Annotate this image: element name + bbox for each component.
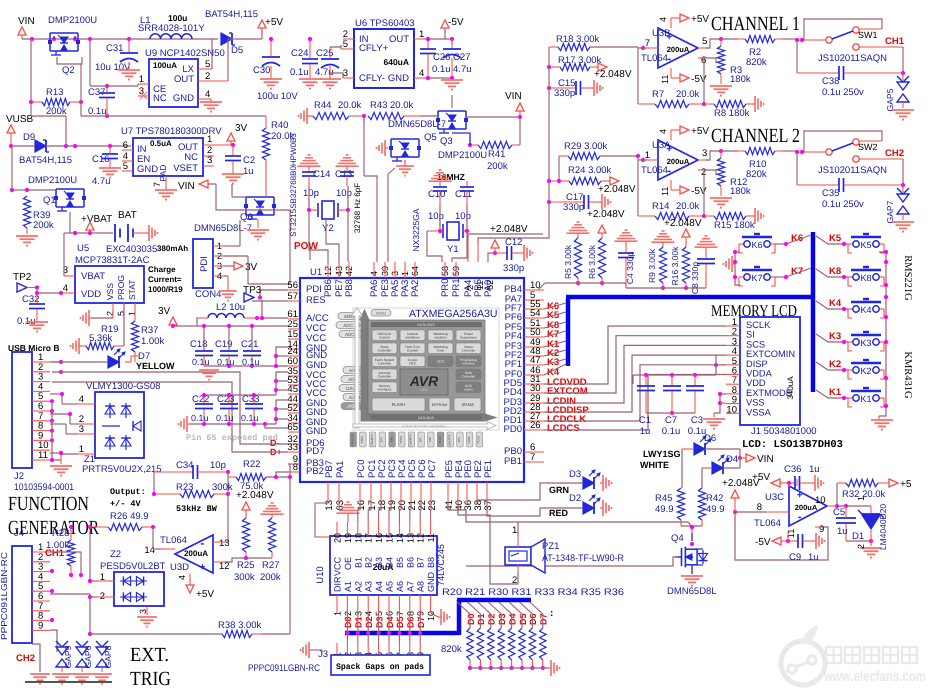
svg-text:LWY1SG: LWY1SG bbox=[643, 449, 681, 459]
svg-text:1: 1 bbox=[419, 29, 424, 40]
pin 3 bbox=[330, 68, 354, 79]
U1 peripheral pills bbox=[350, 432, 483, 447]
label ATXMEGA256A3U bbox=[409, 308, 498, 320]
svg-text:VBAT: VBAT bbox=[81, 271, 105, 282]
svg-text:J2: J2 bbox=[14, 471, 24, 482]
svg-text:RMS221G: RMS221G bbox=[902, 255, 913, 301]
svg-text:GAP7: GAP7 bbox=[885, 200, 895, 223]
svg-text:PR1: PR1 bbox=[451, 279, 462, 297]
inductor L1 bbox=[138, 13, 205, 39]
pin 2 bbox=[198, 39, 236, 82]
wire gnd chain top bbox=[252, 347, 288, 368]
svg-text:SCS: SCS bbox=[746, 339, 765, 349]
svg-text:LCD: LSO13B7DH03: LCD: LSO13B7DH03 bbox=[742, 439, 843, 451]
svg-text:-5V: -5V bbox=[448, 17, 464, 28]
svg-text:NX3225GA: NX3225GA bbox=[411, 208, 421, 251]
net wire left rail bbox=[10, 146, 29, 192]
svg-text:A7: A7 bbox=[405, 581, 415, 592]
capacitor C30 bbox=[253, 37, 298, 102]
svg-text:PROG: PROG bbox=[116, 275, 126, 300]
3V arrow con4 bbox=[224, 262, 258, 273]
op-amp U3A TL064 bbox=[641, 140, 698, 180]
resistor R27 bbox=[224, 518, 281, 583]
wire R38 row bbox=[0, 0, 1, 1]
svg-text:26: 26 bbox=[530, 420, 541, 431]
resistor R44 bbox=[299, 100, 365, 124]
svg-text:37: 37 bbox=[483, 500, 494, 511]
svg-text:200uA: 200uA bbox=[184, 549, 208, 558]
svg-text:R25: R25 bbox=[237, 560, 254, 571]
svg-text:200uA: 200uA bbox=[667, 157, 690, 166]
U1 AVR CPU box bbox=[400, 369, 448, 395]
svg-text:Pin 65 exposed pad: Pin 65 exposed pad bbox=[186, 433, 278, 443]
crystal Y1 bbox=[427, 205, 469, 255]
svg-text:RED: RED bbox=[549, 508, 569, 518]
testpoint TP2 bbox=[13, 272, 61, 295]
wire vcc rail mid bbox=[202, 372, 288, 397]
U1 internal pin pills bbox=[336, 313, 367, 410]
svg-text:+: + bbox=[199, 562, 205, 573]
capacitor C36 bbox=[0, 0, 1, 1]
svg-text:K5: K5 bbox=[860, 240, 871, 250]
svg-text:D6: D6 bbox=[406, 616, 416, 628]
svg-text:YELLOW: YELLOW bbox=[136, 361, 175, 371]
svg-text:J3: J3 bbox=[318, 649, 328, 660]
U10 vcc pyramid bbox=[337, 502, 360, 522]
bridge Z1 PRTR5V0U2X bbox=[82, 381, 162, 475]
button K3 bbox=[816, 331, 884, 351]
svg-text:A3: A3 bbox=[364, 581, 374, 592]
svg-text:TL064: TL064 bbox=[641, 165, 668, 176]
svg-text:5: 5 bbox=[343, 39, 348, 50]
resistor R41 bbox=[452, 117, 520, 172]
capacitor C16 bbox=[92, 146, 121, 187]
svg-text:C3: C3 bbox=[691, 415, 703, 426]
led D2 red bbox=[487, 493, 612, 518]
Z2 wire2 bbox=[50, 594, 98, 599]
svg-text:EVENT ROUTING NETWORK: EVENT ROUTING NETWORK bbox=[402, 424, 446, 428]
svg-text:Counter: Counter bbox=[407, 348, 419, 352]
svg-text:K1: K1 bbox=[860, 394, 871, 404]
svg-text:+2.048V: +2.048V bbox=[598, 184, 636, 195]
svg-text:3V: 3V bbox=[245, 262, 258, 273]
capacitor C17 bbox=[468, 183, 625, 244]
svg-text:D2: D2 bbox=[487, 613, 497, 625]
pin 4 bbox=[59, 283, 75, 295]
U1 block diagram frame bbox=[353, 308, 499, 430]
svg-text:K2: K2 bbox=[860, 366, 871, 376]
svg-text:0.1u: 0.1u bbox=[432, 64, 451, 75]
label DMN65D8L-7 mid bbox=[194, 223, 252, 234]
svg-text:A1: A1 bbox=[343, 581, 353, 592]
resistor R2 bbox=[721, 35, 797, 68]
svg-text:R24 3.00k: R24 3.00k bbox=[568, 165, 612, 176]
svg-text:9: 9 bbox=[38, 620, 43, 631]
U1 left pins bbox=[287, 280, 328, 477]
svg-text:FLASH: FLASH bbox=[392, 402, 406, 407]
wires K pins to bus bbox=[544, 303, 566, 375]
op-amp U3C TL064 bbox=[754, 486, 827, 529]
J4 net CH1 bbox=[45, 548, 81, 575]
svg-text:C7: C7 bbox=[665, 415, 677, 426]
bus D stub labels bbox=[343, 613, 426, 643]
K67 left common bbox=[724, 250, 741, 285]
svg-text:TWI: TWI bbox=[389, 437, 393, 443]
svg-text:TWIC: TWIC bbox=[467, 435, 471, 443]
svg-text:DATA BUS: DATA BUS bbox=[418, 416, 435, 420]
J3 flag bbox=[301, 642, 323, 658]
svg-text:SPI: SPI bbox=[457, 437, 461, 442]
svg-text:200k: 200k bbox=[487, 161, 508, 172]
net +VBAT bbox=[81, 214, 112, 233]
svg-text:C5: C5 bbox=[833, 507, 845, 518]
connector J4 bbox=[0, 528, 32, 643]
capacitor C35 bbox=[797, 152, 905, 210]
svg-text::: : bbox=[550, 608, 553, 619]
svg-text:NC: NC bbox=[184, 152, 198, 163]
wire PZ1 net1 bbox=[448, 503, 694, 529]
XOSC box bbox=[371, 310, 391, 317]
svg-text:K8: K8 bbox=[860, 273, 871, 283]
connector J3 box bbox=[248, 649, 430, 675]
resistor R45 body bbox=[655, 488, 685, 526]
svg-text:3V: 3V bbox=[235, 123, 248, 134]
svg-text:9: 9 bbox=[819, 524, 824, 535]
svg-text:+: + bbox=[797, 490, 803, 501]
IC U1 box bbox=[300, 267, 524, 482]
text CHANNEL 2 bbox=[711, 125, 800, 147]
wire usb col bbox=[0, 0, 1, 1]
svg-text:1: 1 bbox=[856, 496, 866, 501]
op-amp U3B TL064 bbox=[641, 28, 698, 68]
button K1 bbox=[816, 387, 884, 407]
svg-text:Y1: Y1 bbox=[447, 244, 459, 255]
svg-text:640uA: 640uA bbox=[383, 57, 409, 67]
transistor Q3 DMP2100U bbox=[420, 111, 487, 161]
wire Y1 to U1 bbox=[427, 231, 467, 262]
svg-text:R20 R21 R30 R31 R33 R34 R35 R3: R20 R21 R30 R31 R33 R34 R35 R36 bbox=[442, 587, 624, 598]
pin 1 bbox=[138, 74, 149, 85]
svg-text:10u 10V: 10u 10V bbox=[95, 62, 131, 73]
U3C feedback loop bbox=[735, 512, 828, 560]
svg-text:4: 4 bbox=[177, 575, 187, 580]
diode D9 BAT54H,115 bbox=[19, 132, 72, 166]
svg-text:CFLY+: CFLY+ bbox=[359, 43, 389, 54]
svg-text:300k: 300k bbox=[212, 482, 233, 493]
pin 4 +5V bbox=[658, 14, 709, 28]
pin 3 bbox=[63, 233, 75, 276]
svg-text:K8: K8 bbox=[829, 266, 841, 277]
button K5 bbox=[816, 233, 884, 253]
svg-text:1u: 1u bbox=[243, 166, 254, 177]
svg-text:PZ1: PZ1 bbox=[542, 541, 559, 552]
svg-text:DIR: DIR bbox=[333, 576, 343, 592]
svg-text:LCDCS: LCDCS bbox=[547, 423, 580, 434]
svg-text:4: 4 bbox=[63, 283, 68, 294]
svg-text:TCE0: TCE0 bbox=[399, 436, 403, 444]
svg-text:WHITE: WHITE bbox=[640, 460, 669, 470]
J4 gnd left bbox=[30, 644, 50, 684]
svg-text:SW2: SW2 bbox=[858, 142, 878, 152]
svg-text:Supervision: Supervision bbox=[460, 335, 477, 339]
bus D junctions bbox=[345, 631, 422, 635]
svg-text:49.9: 49.9 bbox=[706, 504, 725, 515]
svg-text:PPPC091LGBN-RC: PPPC091LGBN-RC bbox=[248, 663, 320, 674]
svg-text:A8: A8 bbox=[416, 581, 426, 592]
switch SW1 JS102011SAQN bbox=[795, 19, 905, 64]
connector J2 pins bbox=[32, 352, 50, 461]
wire J2 vbus bbox=[52, 361, 61, 363]
resistor R9 bbox=[647, 231, 675, 290]
pin out bbox=[698, 36, 723, 48]
svg-text:C27: C27 bbox=[453, 52, 470, 63]
svg-text:CH2: CH2 bbox=[16, 653, 35, 664]
wire avcc bbox=[260, 300, 264, 320]
svg-text:6: 6 bbox=[123, 140, 128, 151]
svg-text:D1: D1 bbox=[354, 616, 364, 628]
svg-text:DMP2100U: DMP2100U bbox=[48, 15, 97, 26]
svg-text:DMP2100U: DMP2100U bbox=[28, 175, 77, 186]
svg-text:65: 65 bbox=[287, 422, 298, 433]
connector J1 pins bbox=[726, 317, 795, 417]
IC U6 TPS60403 bbox=[354, 18, 415, 88]
svg-text:8: 8 bbox=[293, 462, 298, 473]
svg-text:Controller: Controller bbox=[378, 374, 393, 378]
capacitor C5 bbox=[833, 506, 873, 543]
svg-text:4: 4 bbox=[419, 68, 424, 79]
svg-text:C1: C1 bbox=[639, 415, 651, 426]
wire USB D- bbox=[52, 372, 288, 444]
svg-text:330p: 330p bbox=[563, 202, 584, 213]
capacitor C25 bbox=[315, 45, 341, 89]
bottom shield bar bbox=[25, 681, 112, 683]
resistor R17 bbox=[547, 55, 632, 80]
svg-text:EXTCOMIN: EXTCOMIN bbox=[746, 349, 795, 359]
svg-text:C16: C16 bbox=[92, 154, 109, 165]
svg-text:340uA: 340uA bbox=[786, 376, 795, 400]
capacitor C8 bbox=[690, 236, 718, 294]
wire Y2 to U1 bbox=[309, 210, 348, 262]
svg-text:CHANNEL 2: CHANNEL 2 bbox=[711, 125, 800, 147]
svg-text:OE: OE bbox=[343, 557, 353, 570]
svg-text:Charge: Charge bbox=[148, 265, 176, 274]
svg-text:0.1u: 0.1u bbox=[192, 357, 210, 367]
wire VUSB rail bbox=[9, 144, 131, 148]
svg-text:100uA: 100uA bbox=[153, 61, 177, 70]
svg-text:R44: R44 bbox=[314, 100, 331, 111]
svg-text:1: 1 bbox=[79, 444, 84, 455]
svg-text:Z2: Z2 bbox=[110, 549, 121, 560]
spark gap GAP6 bbox=[72, 641, 93, 684]
svg-text:D9: D9 bbox=[23, 132, 35, 143]
svg-text:KMR431G: KMR431G bbox=[902, 351, 913, 399]
svg-text:D4: D4 bbox=[507, 613, 517, 625]
power +5V bbox=[258, 17, 283, 39]
svg-text:VSS: VSS bbox=[105, 283, 115, 300]
svg-text:300k: 300k bbox=[234, 572, 255, 583]
wire vdd rail bbox=[633, 373, 716, 384]
svg-text:R7: R7 bbox=[652, 89, 664, 100]
speaker PZ1 bbox=[505, 525, 624, 586]
resistor R8 bbox=[704, 58, 764, 119]
svg-text:200uA: 200uA bbox=[667, 45, 690, 54]
net VIN arrow bbox=[178, 180, 216, 192]
pin 1 3V out bbox=[203, 123, 248, 147]
svg-text:OUT: OUT bbox=[389, 34, 409, 45]
svg-text:0.5uA: 0.5uA bbox=[150, 139, 172, 148]
text EXT TRIG bbox=[130, 644, 171, 690]
U1 top pin wires bbox=[364, 116, 495, 262]
svg-text:+5V: +5V bbox=[691, 14, 709, 25]
svg-text:16: 16 bbox=[356, 500, 367, 511]
svg-text:11: 11 bbox=[660, 187, 670, 196]
U1 data bus bottom bbox=[371, 415, 482, 420]
text GENERATOR bbox=[8, 517, 100, 539]
button K6 bbox=[739, 233, 811, 253]
svg-text:PA6: PA6 bbox=[369, 280, 380, 297]
svg-text:1: 1 bbox=[512, 525, 517, 536]
bus D horizontal high bbox=[457, 598, 531, 603]
pin 4 bbox=[414, 68, 452, 79]
svg-text:EXT.: EXT. bbox=[130, 644, 169, 666]
svg-text:C25: C25 bbox=[316, 48, 333, 59]
U1 right pins bbox=[504, 280, 590, 467]
svg-text:R28: R28 bbox=[52, 528, 69, 539]
svg-text:PD0: PD0 bbox=[504, 424, 522, 435]
svg-text:matrix: matrix bbox=[464, 387, 473, 391]
svg-text:EBI/SDR: EBI/SDR bbox=[351, 433, 355, 446]
svg-text:A4: A4 bbox=[374, 581, 384, 592]
svg-text:820k: 820k bbox=[746, 169, 767, 180]
capacitor C37 bbox=[88, 84, 115, 118]
wire PZ1 bottom bbox=[458, 503, 518, 584]
svg-text:J1 5034801000: J1 5034801000 bbox=[751, 426, 817, 437]
svg-text:D5: D5 bbox=[231, 45, 243, 56]
J2 junction dots bbox=[50, 360, 63, 462]
svg-text:820k: 820k bbox=[441, 644, 462, 655]
svg-text:D5: D5 bbox=[518, 613, 528, 625]
svg-text:49.9: 49.9 bbox=[655, 504, 674, 515]
svg-text:Controller: Controller bbox=[378, 348, 393, 352]
resistor R7 bbox=[638, 48, 706, 108]
net label VIN bbox=[18, 16, 35, 39]
led D3 green bbox=[477, 469, 612, 503]
svg-text:11: 11 bbox=[660, 75, 670, 84]
svg-text:0.1u: 0.1u bbox=[662, 426, 681, 437]
3V arrow mid bbox=[158, 306, 288, 328]
svg-text:TP3: TP3 bbox=[243, 285, 262, 296]
svg-text:VSET: VSET bbox=[173, 163, 198, 174]
svg-text:Y2: Y2 bbox=[322, 223, 334, 234]
svg-text:K1: K1 bbox=[829, 387, 842, 398]
U1 white arrow bbox=[352, 308, 497, 430]
svg-text:ADC: ADC bbox=[343, 323, 353, 328]
capacitor C12 bbox=[490, 224, 533, 274]
svg-text:0.1u 250v: 0.1u 250v bbox=[822, 199, 864, 210]
svg-text:4.7u: 4.7u bbox=[92, 176, 111, 187]
svg-text:32768 Hz 6pF: 32768 Hz 6pF bbox=[353, 183, 362, 233]
svg-text:USART0-: USART0- bbox=[448, 434, 452, 447]
svg-text:GND: GND bbox=[137, 164, 158, 175]
wire adc1 bbox=[538, 283, 626, 290]
svg-text:VLMY1300-GS08: VLMY1300-GS08 bbox=[86, 381, 160, 392]
svg-text:B8: B8 bbox=[426, 557, 436, 568]
IC U5 MCP73831T-2AC bbox=[75, 243, 188, 303]
svg-text:1: 1 bbox=[207, 134, 212, 145]
svg-text:PESD5V0L2BT: PESD5V0L2BT bbox=[100, 561, 166, 572]
junction bbox=[30, 37, 131, 41]
svg-text:GAP9: GAP9 bbox=[63, 645, 73, 668]
svg-text:C2: C2 bbox=[243, 155, 255, 166]
resistor R12 bbox=[710, 151, 751, 208]
svg-text:2: 2 bbox=[856, 544, 866, 549]
svg-text:53kHz BW: 53kHz BW bbox=[176, 504, 218, 514]
led D4 bbox=[702, 449, 774, 488]
text FUNCTION bbox=[8, 493, 89, 515]
svg-text:C14: C14 bbox=[313, 169, 330, 180]
svg-text:PC7: PC7 bbox=[427, 460, 438, 478]
svg-text:GND: GND bbox=[426, 572, 436, 593]
resistor R6 bbox=[587, 225, 606, 285]
wire bottom bus bbox=[104, 116, 266, 125]
svg-text:R45: R45 bbox=[655, 493, 672, 504]
svg-text:PB8: PB8 bbox=[344, 279, 355, 297]
svg-text:U1: U1 bbox=[310, 267, 322, 278]
pin 11 -5V bbox=[660, 68, 707, 85]
svg-text:R18 3.00k: R18 3.00k bbox=[556, 34, 600, 45]
connector J2 bbox=[12, 352, 74, 493]
capacitor C24 bbox=[290, 37, 321, 89]
svg-text:Q4: Q4 bbox=[671, 533, 684, 544]
pin 4 +5V bbox=[658, 126, 709, 140]
svg-text:C26: C26 bbox=[433, 52, 450, 63]
svg-text:C34: C34 bbox=[176, 460, 193, 471]
wires U1 left feed bbox=[0, 0, 1, 1]
svg-text:U10: U10 bbox=[315, 566, 326, 583]
svg-text:Q6: Q6 bbox=[240, 212, 253, 223]
svg-text:+2.048V: +2.048V bbox=[587, 209, 625, 220]
U3C output bbox=[815, 495, 871, 508]
Z1 diodes bbox=[102, 403, 141, 450]
diode D1 LM4040D20 bbox=[852, 496, 888, 558]
resistor R40 bbox=[262, 120, 294, 170]
pin 5 bbox=[198, 39, 212, 70]
svg-text:+/- 4V: +/- 4V bbox=[110, 499, 142, 509]
svg-text:A5: A5 bbox=[385, 581, 395, 592]
svg-text:Interfaces: Interfaces bbox=[378, 387, 392, 391]
transistor Q6 DMN65D8L-7 bbox=[232, 160, 276, 240]
svg-text:7: 7 bbox=[152, 182, 162, 187]
svg-text:VSSA: VSSA bbox=[746, 407, 772, 417]
text CHANNEL 1 bbox=[711, 13, 800, 35]
svg-text:+VBAT: +VBAT bbox=[81, 214, 112, 225]
svg-text:D0: D0 bbox=[343, 616, 353, 628]
svg-text:10: 10 bbox=[815, 495, 826, 506]
svg-text:D5: D5 bbox=[395, 616, 405, 628]
svg-text:1: 1 bbox=[645, 150, 650, 161]
svg-text:R37: R37 bbox=[141, 325, 158, 336]
connector CON4 PDI bbox=[193, 239, 237, 301]
svg-text:C38: C38 bbox=[822, 76, 839, 87]
resistor R43 bbox=[362, 100, 420, 120]
svg-text:VDD: VDD bbox=[81, 289, 101, 300]
svg-text:0.1u: 0.1u bbox=[290, 67, 309, 78]
text MEMORY LCD bbox=[711, 301, 797, 320]
svg-text:C24: C24 bbox=[291, 48, 308, 59]
svg-text:10103594-0001: 10103594-0001 bbox=[14, 482, 74, 493]
wire USB D+ bbox=[52, 382, 288, 452]
svg-text:10p: 10p bbox=[303, 188, 319, 199]
